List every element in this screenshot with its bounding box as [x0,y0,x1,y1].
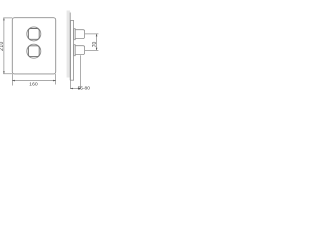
svg-text:70: 70 [92,42,98,48]
svg-text:210: 210 [0,41,5,51]
dim 70 arrow bottom [96,48,98,51]
top knob square [28,29,39,40]
dim 210 line [3,18,5,74]
front plate [12,18,55,74]
dim 55-80 arrow right [78,88,81,90]
top knob body (side view) [75,30,84,39]
bottom knob circle [27,44,41,58]
top knob circle [27,27,41,41]
dim 210 arrow top [3,18,5,21]
top knob base (side view) [74,29,76,40]
dim 160 line [12,80,55,82]
dim 210 extension bottom [3,73,12,75]
bottom knob square [28,46,39,57]
dim 70 extension top [85,33,98,35]
plate profile (side view) [71,21,74,81]
svg-text:55-80: 55-80 [78,86,91,92]
dim 160 extension right [55,74,57,85]
wall bar (side view) [67,11,71,78]
dim 55-80 extension left [69,80,71,89]
wall bar right edge [69,13,71,81]
dim 160 extension left [11,74,13,86]
bottom knob base (side view) [74,45,76,56]
dim 160 arrow left [12,80,15,82]
bottom knob body (side view) [75,46,84,55]
dim 70 arrow top [96,34,98,37]
svg-text:160: 160 [29,82,38,88]
dim 160 arrow right [53,80,56,82]
dim 70 extension bottom [85,49,98,51]
dim 55-80 arrow left [70,88,73,90]
dim 210 arrow bottom [3,71,5,74]
dim 55-80 extension right [80,55,82,89]
dim 210 extension top [3,17,12,19]
dim 70 line [96,34,98,50]
dim 55-80 line [70,88,80,90]
